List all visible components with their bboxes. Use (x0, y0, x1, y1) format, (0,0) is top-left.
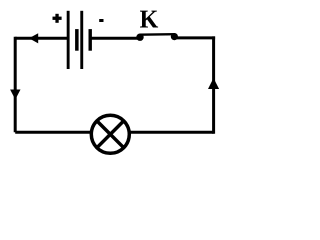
lamp L1 cross stroke 1 (97, 121, 124, 148)
current arrow on top-left wire (29, 33, 38, 43)
minus polarity label (99, 19, 103, 22)
short plate 2 (-) (89, 29, 92, 51)
switch K blade (140, 33, 176, 36)
battery cell plates (67, 11, 92, 69)
wire bottom (15, 131, 213, 134)
wire top-left segment (15, 37, 67, 40)
current arrow on left wire (10, 90, 20, 100)
wire switch to top-right corner (174, 36, 215, 39)
lamp L1 cross stroke 2 (97, 121, 124, 148)
long plate 1 (+) (67, 11, 70, 69)
wire between battery and switch (90, 37, 140, 40)
current arrow on right wire (208, 78, 219, 89)
wire left side (14, 37, 17, 133)
wire right side (212, 36, 215, 133)
switch K terminal dot right (171, 33, 178, 40)
long plate 2 (+) (80, 11, 83, 69)
switch K terminal dot left (136, 34, 143, 41)
switch label K (140, 11, 158, 28)
short plate 1 (-) (75, 29, 79, 51)
lamp L1 circle (91, 115, 129, 153)
plus polarity label (53, 14, 62, 23)
